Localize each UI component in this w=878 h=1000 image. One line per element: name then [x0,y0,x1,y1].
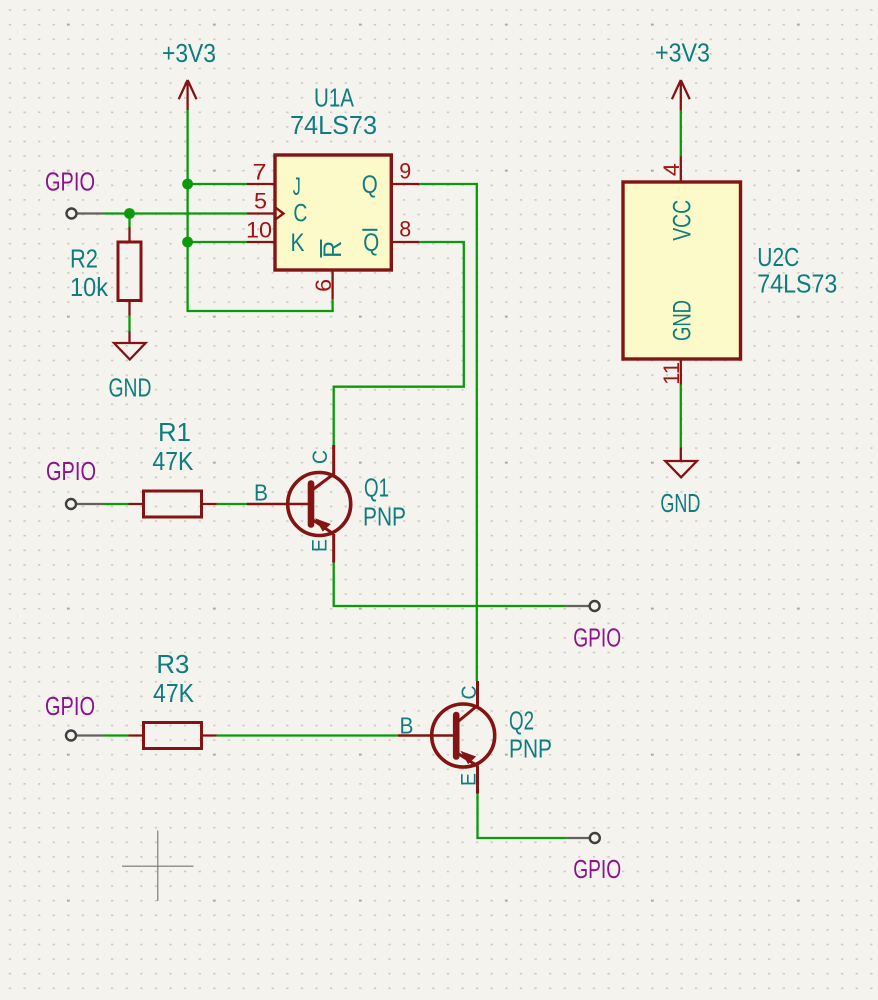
svg-text:9: 9 [399,159,411,184]
svg-text:Q: Q [362,171,378,199]
svg-text:GPIO: GPIO [45,691,95,721]
svg-text:11: 11 [659,362,684,385]
svg-text:+3V3: +3V3 [162,38,216,68]
svg-text:Q2: Q2 [509,706,534,736]
svg-text:+3V3: +3V3 [655,38,710,68]
svg-text:10: 10 [246,218,272,243]
svg-text:5: 5 [254,189,267,214]
svg-text:Q: Q [363,229,379,257]
svg-text:GND: GND [660,488,700,518]
svg-text:R: R [319,241,347,258]
svg-text:VCC: VCC [668,200,696,241]
svg-text:B: B [400,713,414,739]
svg-text:74LS73: 74LS73 [757,269,837,299]
svg-text:R3: R3 [156,649,189,679]
svg-text:8: 8 [399,217,411,242]
svg-text:GND: GND [109,373,152,403]
svg-text:C: C [458,686,481,700]
svg-text:PNP: PNP [363,502,406,532]
svg-text:74LS73: 74LS73 [290,110,377,140]
svg-text:E: E [458,773,481,786]
svg-text:GPIO: GPIO [45,167,95,197]
svg-text:GND: GND [668,300,696,341]
svg-text:GPIO: GPIO [46,456,96,486]
svg-text:C: C [309,450,332,464]
svg-text:7: 7 [253,160,267,185]
svg-text:6: 6 [311,279,336,292]
svg-text:U2C: U2C [757,242,799,272]
svg-text:B: B [254,480,268,506]
svg-text:Q1: Q1 [364,473,389,503]
svg-text:PNP: PNP [509,734,552,764]
svg-text:GPIO: GPIO [573,623,621,653]
svg-text:K: K [291,229,305,257]
svg-text:R1: R1 [158,417,191,447]
svg-text:47K: 47K [153,678,195,708]
svg-text:47K: 47K [152,446,194,476]
svg-text:C: C [293,200,307,228]
svg-text:R2: R2 [70,244,98,274]
svg-text:4: 4 [659,163,684,176]
svg-text:E: E [309,539,332,552]
svg-text:10k: 10k [70,272,109,302]
svg-text:U1A: U1A [314,83,355,113]
svg-text:GPIO: GPIO [573,854,621,884]
svg-text:J: J [293,173,301,201]
